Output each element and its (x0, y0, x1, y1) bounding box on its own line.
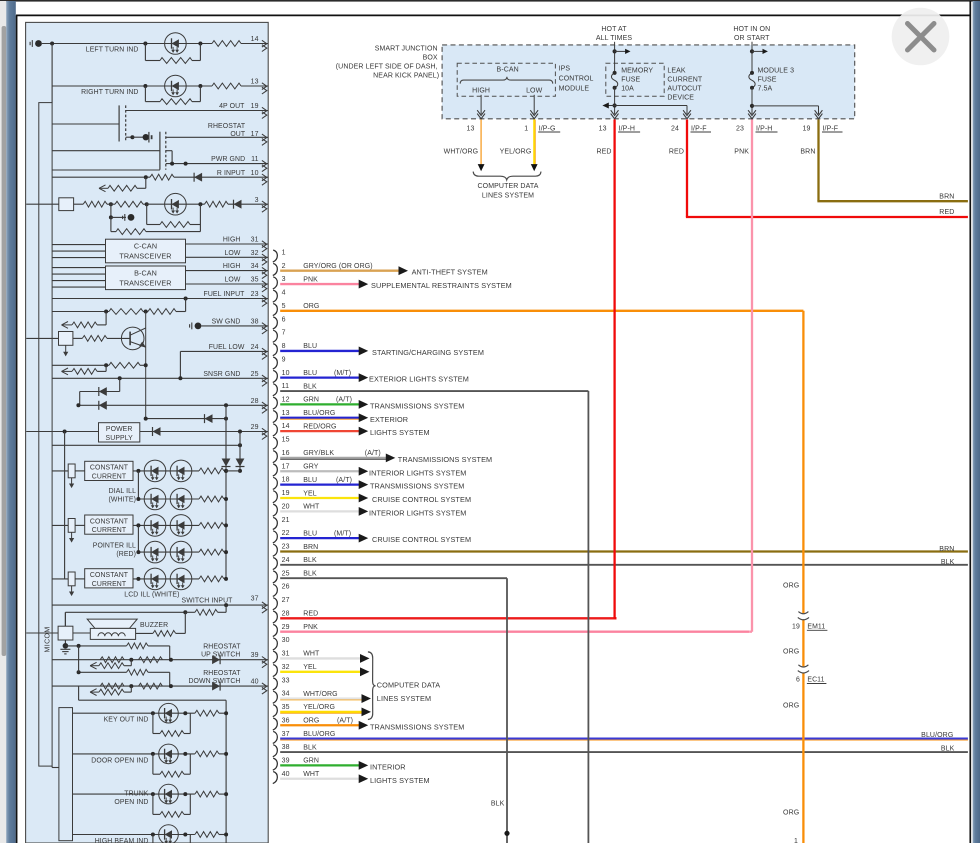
wire ind row (73, 753, 195, 755)
wire pin 29 PNK (280, 631, 749, 633)
svg-text:38: 38 (251, 319, 259, 326)
pin 26 bracket (273, 584, 278, 596)
svg-text:(UNDER LEFT SIDE OF DASH,: (UNDER LEFT SIDE OF DASH, (336, 63, 438, 70)
wire ind row (73, 793, 195, 795)
wire fuel input 23 (52, 298, 268, 300)
wire pin 24 BLK (280, 564, 968, 566)
arrow down (71, 586, 73, 593)
resistor upper (127, 643, 149, 649)
pin 1 bracket (273, 250, 278, 262)
svg-text:16: 16 (282, 450, 290, 457)
svg-text:19: 19 (792, 623, 800, 630)
diode D10 (222, 459, 231, 467)
resistor R1 (212, 41, 241, 47)
node (151, 833, 155, 837)
svg-text:LINES SYSTEM: LINES SYSTEM (377, 694, 431, 703)
wire pin 18 BLU (280, 483, 359, 485)
wire rheostat out row (166, 136, 268, 138)
resistor vertical (52, 524, 68, 526)
arrow hot feed (615, 50, 627, 52)
sw gnd ground G3 (191, 323, 193, 330)
pin 8 bracket (273, 344, 278, 356)
arrow pin 17 (359, 467, 369, 476)
svg-text:ANTI-THEFT SYSTEM: ANTI-THEFT SYSTEM (412, 268, 488, 277)
constant current box (85, 569, 133, 588)
svg-text:DIAL ILL: DIAL ILL (109, 488, 136, 495)
svg-text:HOT AT: HOT AT (601, 26, 627, 33)
wire led row (133, 578, 199, 580)
svg-text:BLK: BLK (941, 746, 955, 753)
pin 6 bracket (273, 317, 278, 329)
pin 12 bracket (273, 397, 278, 409)
node (224, 711, 228, 715)
svg-text:B-CAN: B-CAN (497, 67, 519, 74)
svg-text:10: 10 (251, 170, 259, 177)
svg-text:HIGH: HIGH (472, 88, 490, 95)
wire gnd link row (65, 645, 126, 647)
svg-text:C-CAN: C-CAN (134, 242, 157, 251)
wire edge to X3 (26, 632, 58, 634)
wire led row (138, 498, 199, 500)
wire low 35 (186, 283, 269, 285)
svg-text:INTERIOR LIGHTS SYSTEM: INTERIOR LIGHTS SYSTEM (369, 468, 466, 477)
wire cc1 second row drop (137, 471, 139, 499)
node (183, 711, 187, 715)
svg-text:COMPUTER DATA: COMPUTER DATA (478, 183, 539, 190)
power supply box (99, 423, 140, 442)
svg-text:SNSR GND: SNSR GND (203, 371, 240, 378)
wire pin28 row (78, 404, 268, 406)
svg-text:LINES SYSTEM: LINES SYSTEM (482, 193, 534, 200)
svg-text:RED: RED (597, 149, 612, 156)
svg-text:YEL/ORG: YEL/ORG (303, 704, 335, 711)
diode D5 (234, 200, 242, 209)
junction box exit chevrons (477, 114, 485, 119)
svg-text:RHEOSTAT: RHEOSTAT (203, 670, 241, 677)
node (224, 792, 228, 796)
svg-text:23: 23 (736, 125, 744, 132)
node (77, 644, 81, 648)
node N24 (224, 603, 228, 607)
arrow down (71, 532, 73, 539)
node N23 (238, 469, 242, 473)
node N11 (198, 202, 202, 206)
svg-text:1: 1 (524, 125, 528, 132)
node N4 (143, 84, 147, 88)
svg-text:BOX: BOX (423, 54, 438, 61)
svg-text:POWER: POWER (106, 426, 133, 433)
wire module3 out (751, 88, 753, 114)
svg-text:BLK: BLK (303, 744, 317, 751)
wire switch input 37 (52, 604, 268, 606)
LED D4 (165, 193, 187, 215)
svg-text:RHEOSTAT: RHEOSTAT (203, 644, 241, 651)
pin 11 bracket (273, 384, 278, 396)
wire blk pin25 vertical (506, 578, 508, 843)
svg-text:BRN: BRN (939, 193, 954, 200)
resistor (199, 468, 224, 474)
pin 21 bracket (273, 517, 278, 529)
resistor (199, 523, 224, 529)
X2 down arrow (65, 345, 67, 352)
LED (144, 515, 166, 537)
svg-text:19: 19 (251, 103, 259, 110)
transistor Q3 (121, 327, 144, 350)
svg-text:BLK: BLK (303, 557, 317, 564)
svg-text:25: 25 (282, 570, 290, 577)
svg-text:YEL: YEL (303, 664, 317, 671)
wire low 32 (186, 256, 269, 258)
arrow pin 36 (359, 721, 369, 730)
svg-text:34: 34 (282, 691, 290, 698)
svg-text:WHT: WHT (303, 651, 320, 658)
svg-text:KEY OUT IND: KEY OUT IND (104, 717, 149, 724)
node N20 (238, 430, 242, 434)
svg-text:HIGH: HIGH (223, 263, 241, 270)
svg-text:LIGHTS SYSTEM: LIGHTS SYSTEM (370, 776, 430, 785)
svg-text:LIGHTS SYSTEM: LIGHTS SYSTEM (370, 428, 430, 437)
svg-text:13: 13 (282, 410, 290, 417)
svg-text:(A/T): (A/T) (336, 477, 352, 484)
arrow pin 34 (362, 694, 372, 703)
node (169, 684, 173, 688)
brace computer data lines (368, 652, 376, 720)
resistor main a (100, 683, 124, 689)
wire r input row (52, 176, 150, 178)
wire rheostat bus vertical (78, 646, 80, 672)
wire pin 36 ORG (280, 724, 359, 726)
wire ind right bus vertical (225, 700, 227, 843)
resistor R19 buzzer (136, 632, 153, 634)
node leak branch (613, 103, 617, 107)
node (136, 523, 140, 527)
svg-text:FUSE: FUSE (621, 77, 640, 84)
diagram frame right line (969, 1, 971, 843)
pin 39 bracket (273, 758, 278, 770)
svg-text:19: 19 (803, 125, 811, 132)
node (136, 577, 140, 581)
wire to X2 (26, 337, 58, 339)
diode D3 (194, 173, 202, 182)
arrow pin 32 (360, 667, 370, 676)
node blk bottom (504, 831, 509, 836)
node (224, 550, 228, 554)
wire ind row (73, 712, 195, 714)
svg-text:13: 13 (251, 79, 259, 86)
leak current branch wire (607, 105, 688, 107)
diode D9 (153, 427, 161, 436)
wire r input cont (174, 176, 268, 178)
arrow pin 39 (359, 761, 369, 770)
svg-text:NEAR KICK PANEL): NEAR KICK PANEL) (373, 72, 439, 79)
svg-text:SWITCH INPUT: SWITCH INPUT (182, 598, 234, 605)
svg-text:TRANSCEIVER: TRANSCEIVER (119, 278, 171, 287)
arrow pin 10 (359, 373, 369, 382)
wire pin 34 WHT/ORG (280, 697, 361, 699)
wire pin 38 BLK (280, 751, 968, 753)
wire left turn row (42, 43, 212, 45)
pin 38 bracket (273, 745, 278, 757)
node N8 (144, 175, 148, 179)
resistor R2 bypass left turn (144, 44, 146, 61)
wire supply rail D (52, 444, 240, 446)
svg-text:1: 1 (282, 249, 286, 256)
wire pin 13 BLU/ORG (280, 417, 359, 419)
node N6 (170, 162, 174, 166)
smart junction box (442, 45, 855, 119)
pin 5 bracket (273, 304, 278, 316)
instrument cluster panel (26, 22, 269, 843)
svg-text:TRANSMISSIONS SYSTEM: TRANSMISSIONS SYSTEM (370, 722, 464, 731)
wire high drop (480, 95, 482, 114)
svg-text:TRANSMISSIONS SYSTEM: TRANSMISSIONS SYSTEM (398, 455, 492, 464)
svg-text:11: 11 (251, 156, 258, 163)
node hot feed (613, 49, 617, 53)
svg-text:38: 38 (282, 744, 290, 751)
svg-text:LOW: LOW (526, 88, 543, 95)
resistor upper (127, 669, 149, 675)
node N16 (224, 403, 228, 407)
window top border (0, 0, 980, 2)
svg-text:(M/T): (M/T) (334, 370, 351, 377)
svg-text:SMART JUNCTION: SMART JUNCTION (375, 45, 438, 52)
wire RED2 vertical to right (686, 120, 688, 218)
svg-text:17: 17 (251, 131, 259, 138)
svg-text:(M/T): (M/T) (334, 530, 351, 537)
wire ind feed down (64, 612, 66, 626)
svg-text:10: 10 (282, 370, 290, 377)
resistor bypass (152, 794, 154, 814)
node (129, 684, 133, 688)
resistor (199, 576, 224, 582)
svg-text:BLK: BLK (941, 559, 955, 566)
pin 29 bracket (273, 624, 278, 636)
wire led bus right vertical (239, 432, 241, 471)
resistor R6 sense branch (145, 177, 147, 188)
svg-text:ALL TIMES: ALL TIMES (596, 35, 633, 42)
node (183, 833, 187, 837)
svg-text:UP SWITCH: UP SWITCH (201, 652, 240, 659)
svg-text:PNK: PNK (303, 624, 318, 631)
svg-text:I/P-F: I/P-F (691, 125, 707, 132)
svg-text:29: 29 (282, 624, 290, 631)
ground G1 (left turn feed) (31, 40, 33, 47)
wire Q2 source rail (52, 169, 160, 171)
node N3 (198, 42, 202, 46)
branch wire to 19 (752, 105, 819, 107)
arrow pin 18 (359, 480, 369, 489)
wire resistor to box (75, 524, 85, 526)
arrow pin 40 (359, 774, 369, 783)
wire pin 10 BLU (280, 377, 359, 379)
svg-text:MEMORY: MEMORY (621, 68, 653, 75)
resistor (195, 710, 219, 716)
svg-text:HIGH: HIGH (223, 237, 241, 244)
svg-text:13: 13 (467, 125, 475, 132)
svg-text:RHEOSTAT: RHEOSTAT (208, 123, 246, 130)
wire pin 14 RED/ORG (280, 430, 359, 432)
wire diode row A (119, 378, 121, 391)
resistor bypass (152, 713, 154, 733)
wire right turn row (52, 85, 212, 87)
node N22 (224, 469, 228, 473)
resistor R3 (212, 83, 241, 89)
resistor vertical (52, 578, 68, 580)
resistor R11 lower loop (110, 217, 112, 231)
svg-text:BLU: BLU (303, 343, 317, 350)
right blue sidebar (973, 1, 980, 843)
node (183, 752, 187, 756)
svg-text:40: 40 (282, 771, 290, 778)
wire low drop (533, 95, 535, 114)
B-CAN brace (460, 77, 553, 84)
svg-text:GRY: GRY (303, 464, 319, 471)
resistor R8 (115, 201, 143, 207)
wire X3 feed vertical (64, 432, 66, 579)
wire pin 8 BLU (280, 350, 359, 352)
svg-text:GRN: GRN (303, 397, 319, 404)
arrow pin 12 (359, 400, 369, 409)
brace computer data top (473, 172, 541, 180)
LED indicator (159, 825, 179, 845)
arrow pin 31 (360, 654, 370, 663)
arrow pin 14 (359, 427, 369, 436)
wire high 34 (186, 270, 269, 272)
svg-text:B-CAN: B-CAN (134, 269, 157, 278)
svg-text:MICOM: MICOM (45, 626, 52, 652)
svg-text:ORG: ORG (783, 810, 799, 817)
svg-text:CRUISE CONTROL SYSTEM: CRUISE CONTROL SYSTEM (372, 535, 471, 544)
transistor Q2 mosfet (159, 132, 161, 170)
node (224, 497, 228, 501)
svg-text:BLK: BLK (303, 383, 317, 390)
pin 15 bracket (273, 437, 278, 449)
svg-text:35: 35 (282, 704, 290, 711)
node N15 (76, 403, 80, 407)
node (151, 792, 155, 796)
svg-text:LCD ILL (WHITE): LCD ILL (WHITE) (124, 592, 179, 599)
node N13 (118, 376, 122, 380)
close button (892, 8, 950, 66)
wire collector emitter vertical (145, 312, 147, 419)
svg-text:BLK: BLK (303, 571, 317, 578)
ground G2 (110, 204, 112, 217)
svg-text:6: 6 (282, 316, 286, 323)
wire power supply feed (26, 431, 98, 433)
svg-text:CONSTANT: CONSTANT (90, 465, 129, 472)
svg-text:BRN: BRN (303, 544, 318, 551)
diagram frame top line (16, 14, 970, 16)
node (136, 497, 140, 501)
svg-text:29: 29 (251, 424, 259, 431)
wire buzzer drop (64, 612, 66, 626)
svg-text:OR START: OR START (734, 35, 770, 42)
pin 28 bracket (273, 611, 278, 623)
wire pin 19 YEL (280, 497, 359, 499)
wire pin 35 YEL/ORG (280, 711, 361, 713)
svg-text:INTERIOR LIGHTS SYSTEM: INTERIOR LIGHTS SYSTEM (369, 508, 466, 517)
svg-text:24: 24 (671, 125, 679, 132)
svg-text:RED: RED (669, 149, 684, 156)
component X1 sensor box (59, 198, 74, 211)
svg-text:37: 37 (251, 595, 259, 602)
node (77, 670, 81, 674)
svg-text:SUPPLEMENTAL RESTRAINTS SYSTEM: SUPPLEMENTAL RESTRAINTS SYSTEM (371, 281, 512, 290)
svg-text:CURRENT: CURRENT (92, 527, 127, 534)
svg-text:15: 15 (282, 437, 290, 444)
svg-text:14: 14 (251, 36, 259, 43)
B-CAN dashed box (457, 63, 555, 96)
svg-text:TRANSCEIVER: TRANSCEIVER (119, 252, 171, 261)
B-CAN transceiver box (106, 266, 186, 290)
svg-text:5: 5 (282, 303, 286, 310)
constant current box (85, 461, 133, 480)
wire YEL/ORG drop (533, 120, 535, 165)
svg-text:TRANSMISSIONS SYSTEM: TRANSMISSIONS SYSTEM (370, 401, 464, 410)
svg-text:I/P-H: I/P-H (756, 125, 772, 132)
LED indicator (159, 744, 179, 764)
MICOM block rectangle (39, 103, 52, 767)
wire X3 to buzzer (73, 632, 90, 634)
svg-text:WHT: WHT (303, 504, 320, 511)
svg-text:BUZZER: BUZZER (140, 622, 168, 629)
wire sw gnd 38 (201, 325, 268, 327)
node (169, 658, 173, 662)
pin 25 bracket (273, 571, 278, 583)
pin 4 bracket (273, 290, 278, 302)
wire ind row (73, 834, 195, 836)
wire bus top segment (51, 44, 53, 103)
resistor R4 bypass right turn (144, 86, 146, 102)
buzzer square X3 (58, 626, 73, 640)
node N18 (224, 417, 228, 421)
svg-text:CONTROL: CONTROL (559, 75, 594, 82)
transistor Q1 mosfet (118, 105, 120, 141)
node N2 (143, 42, 147, 46)
wire gnd link row (79, 671, 127, 673)
pin 27 bracket (273, 598, 278, 610)
svg-text:LEFT TURN IND: LEFT TURN IND (86, 47, 139, 54)
diode main (212, 655, 220, 664)
svg-text:EXTERIOR LIGHTS SYSTEM: EXTERIOR LIGHTS SYSTEM (369, 375, 469, 384)
svg-text:ORG: ORG (303, 718, 319, 725)
svg-text:8: 8 (282, 343, 286, 350)
svg-text:EXTERIOR: EXTERIOR (370, 415, 408, 424)
node (136, 550, 140, 554)
diode main (212, 682, 220, 691)
svg-text:9: 9 (282, 356, 286, 363)
wire buzzer branch (65, 611, 185, 613)
pin 13 bracket (273, 411, 278, 423)
resistor bypass (152, 754, 154, 774)
svg-text:23: 23 (282, 544, 290, 551)
wire pin 16 GRY/BLK (280, 457, 386, 459)
svg-text:DOWN SWITCH: DOWN SWITCH (188, 678, 240, 685)
svg-text:HOT IN ON: HOT IN ON (733, 26, 770, 33)
resistor sub branch (130, 686, 132, 692)
wire hot-at-all-times feed (614, 42, 616, 73)
wire PNK vertical (751, 120, 753, 632)
svg-text:18: 18 (282, 477, 290, 484)
svg-text:1: 1 (794, 838, 798, 843)
svg-text:(A/T): (A/T) (365, 450, 381, 457)
svg-text:FUSE: FUSE (758, 77, 777, 84)
wire Q1 source to Q2 gate (126, 136, 133, 138)
wire RED1 vertical (613, 120, 615, 619)
node (151, 752, 155, 756)
pin 18 bracket (273, 477, 278, 489)
svg-text:PWR GND: PWR GND (211, 156, 245, 163)
